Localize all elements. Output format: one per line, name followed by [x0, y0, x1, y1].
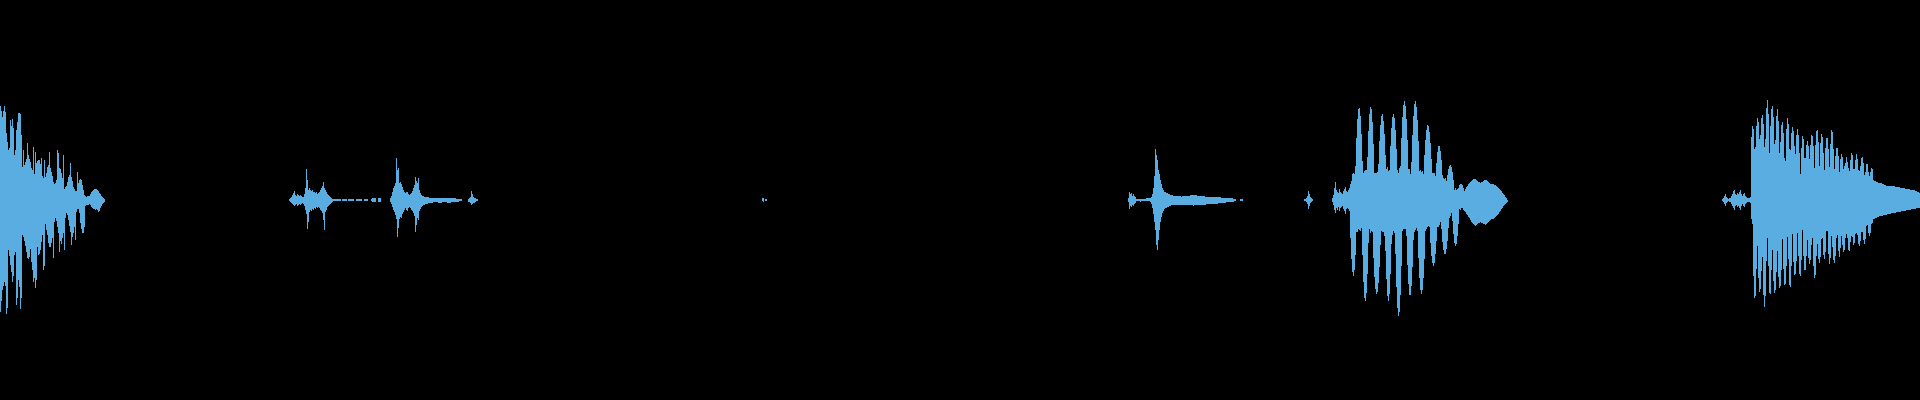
waveform burst 1: opening thump with decaying lobes and diamond blob (x 0-105): [0, 106, 105, 314]
waveform burst 5: loud burst with precursor cluster, decaying into solid triangle (x 1722-1920): [1722, 100, 1920, 307]
waveform burst 2: tiny dot (x 378-381): [378, 198, 381, 202]
waveform burst 2: low-level dotted tail (x 364-368): [364, 199, 368, 201]
waveform burst 3: tail dash (x 1240-1243): [1240, 199, 1243, 201]
waveform burst 2b: second click cluster with tail (x 390-462): [390, 158, 462, 237]
waveform burst 2: low-level dotted tail (x 371-376): [371, 198, 376, 202]
waveform burst 2: end blip (x 468-478): [468, 191, 478, 205]
waveform pre-burst-4 spike (x 1304-1313): [1304, 191, 1313, 209]
waveform burst 2a: first click cluster (x 289-341): [289, 169, 341, 230]
waveform burst 2: low-level dotted tail (x 356-362): [356, 199, 362, 201]
waveform burst 2: low-level dotted tail (x 348-354): [348, 199, 354, 201]
waveform tiny mid blip (x 762-764): [762, 198, 764, 202]
waveform burst 4: loud oscillating burst with lead-in cluster and rounded tail lobes (x 1332-1508): [1332, 101, 1508, 316]
waveform burst 2: low-level dotted tail (x 342-347): [342, 199, 347, 201]
waveform tiny mid blip (x 765-767): [765, 199, 767, 201]
waveform burst 3: sharp click with long tail (x 1128-1236): [1128, 149, 1236, 250]
